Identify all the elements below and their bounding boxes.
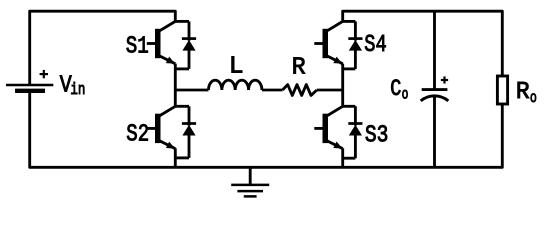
battery V_in negative plate [15,89,45,93]
svg-text:S2: S2 [126,122,149,149]
antiparallel diode of S1 [175,21,196,69]
capacitor plus sign [441,76,448,83]
transistor S3 [314,106,342,148]
wire right leg mid (S4 emitter to S3 collector) [341,64,344,107]
label R_o [516,79,537,107]
wire left leg mid (S1 emitter to S2 collector) [174,64,177,107]
svg-text:C: C [390,76,401,102]
wire top-left rail [30,11,176,84]
wire resistor to right leg [317,89,343,92]
transistor S1 [147,21,176,63]
svg-text:L: L [229,53,244,80]
wire top-right rail [343,11,503,76]
wire C_o branch top [433,11,436,89]
wire C_o branch bottom [433,96,436,167]
transistor S4 [314,21,342,63]
battery V_in positive plate [6,84,53,86]
svg-text:S1: S1 [126,33,149,60]
inductor L [209,80,262,90]
ground [231,167,269,196]
wire left leg bottom (S2 emitter to rail) [174,148,177,167]
label V_in [60,73,86,100]
capacitor C_o flat plate [422,88,448,91]
transistor S2 [147,106,176,148]
svg-text:o: o [402,85,409,103]
svg-text:S3: S3 [365,123,389,150]
wire inductor to resistor [262,89,283,92]
battery plus sign [40,70,48,78]
svg-text:o: o [530,89,537,107]
svg-text:S4: S4 [364,32,386,59]
capacitor C_o curved plate [421,96,449,101]
antiparallel diode of S2 [175,106,196,158]
resistor R_o (box) [497,76,507,104]
svg-text:R: R [292,54,306,81]
antiparallel diode of S3 [343,106,363,158]
svg-text:R: R [516,79,530,106]
resistor R (zigzag) [283,85,317,96]
antiparallel diode of S4 [343,21,363,69]
wire right leg bottom (S3 emitter to rail) [341,148,344,167]
wire bottom rail [30,93,503,168]
wire mid node to inductor [175,89,208,92]
svg-text:in: in [70,80,85,99]
label C_o [390,76,408,103]
